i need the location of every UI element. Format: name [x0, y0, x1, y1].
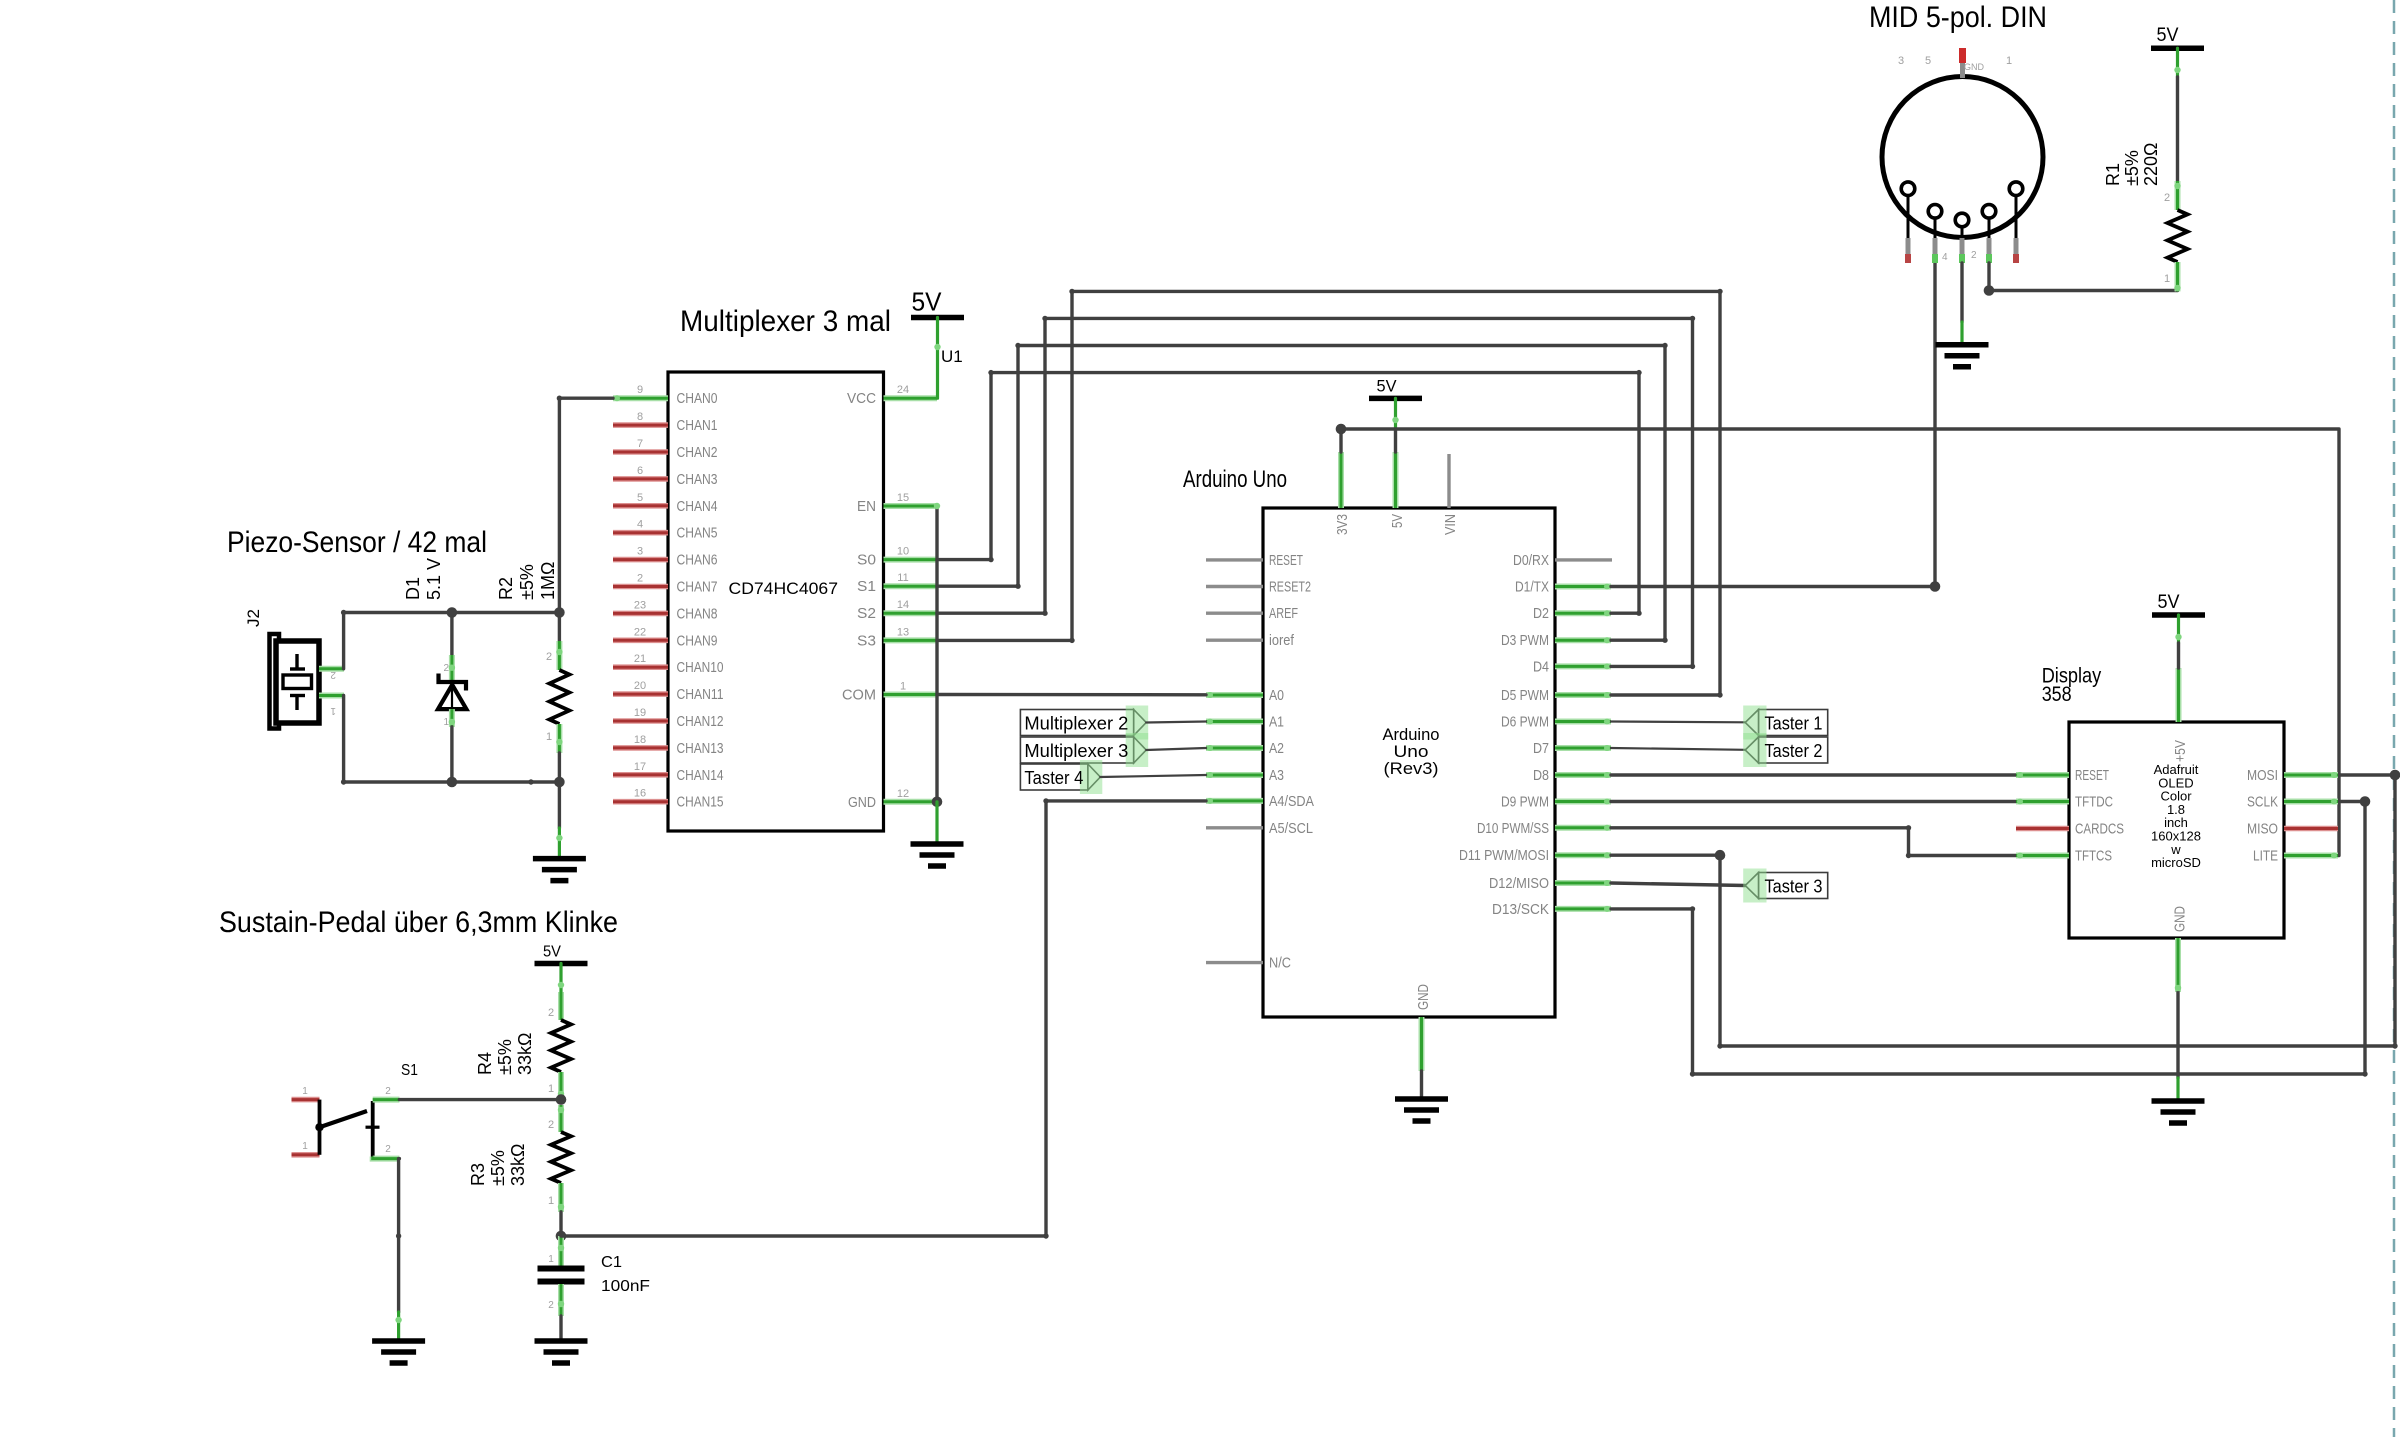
Display pin +5V [2176, 668, 2182, 722]
svg-text:EN: EN [857, 499, 876, 515]
svg-text:±5%: ±5% [2122, 150, 2142, 186]
wire D8 - Display RESET [1611, 773, 2016, 776]
Arduino pin D3 PWM [1555, 637, 1611, 643]
svg-text:21: 21 [634, 653, 646, 665]
resistor R3 33k [558, 1105, 564, 1132]
svg-text:1: 1 [548, 1254, 554, 1265]
svg-text:8: 8 [637, 411, 643, 423]
svg-text:4: 4 [1942, 252, 1948, 263]
ground symbol (DIN) [1936, 342, 1989, 348]
svg-text:C1: C1 [601, 1254, 622, 1271]
svg-text:22: 22 [634, 626, 646, 638]
svg-text:GND: GND [848, 795, 876, 811]
wire S1 bottom to ground [397, 1159, 401, 1312]
svg-text:358: 358 [2042, 683, 2072, 706]
svg-text:D5 PWM: D5 PWM [1501, 688, 1549, 704]
Arduino pin D5 PWM [1555, 692, 1611, 698]
svg-text:D12/MISO: D12/MISO [1489, 876, 1549, 892]
wire 5V to U1 VCC [936, 318, 939, 399]
svg-text:COM: COM [842, 688, 876, 704]
S1 pin top [373, 1097, 400, 1103]
svg-text:9: 9 [637, 384, 643, 396]
U1 pin GND (pin 12) [884, 799, 938, 805]
U1 pin CHAN2 (pin 7) [613, 449, 668, 455]
svg-text:S1: S1 [857, 579, 876, 595]
svg-text:microSD: microSD [2151, 855, 2201, 870]
svg-text:Arduino Uno: Arduino Uno [1183, 466, 1287, 493]
5V supply symbol (R1) [2151, 45, 2204, 51]
net flag Taster 2 [1759, 737, 1828, 763]
junction piezo bottom at D1 [447, 777, 458, 788]
svg-text:11: 11 [897, 572, 908, 584]
DIN pin 4 [1982, 205, 1996, 219]
U1 pin CHAN1 (pin 8) [613, 422, 668, 428]
svg-text:23: 23 [634, 599, 646, 611]
svg-text:Multiplexer 3: Multiplexer 3 [1024, 740, 1128, 761]
svg-text:D11 PWM/MOSI: D11 PWM/MOSI [1459, 848, 1549, 864]
wire Arduino GND to ground [1420, 1071, 1423, 1099]
svg-text:CHAN0: CHAN0 [677, 391, 718, 407]
svg-text:Taster 4: Taster 4 [1024, 767, 1083, 788]
svg-text:CHAN12: CHAN12 [677, 714, 724, 730]
Display pin LITE [2284, 853, 2338, 859]
wire DIN pin4 - R1 [1989, 263, 2178, 291]
D1 label [403, 558, 444, 600]
svg-text:CHAN14: CHAN14 [677, 768, 724, 784]
wire D1/TX - DIN pin5 [1611, 585, 1935, 588]
J2 pin 1 [319, 693, 344, 699]
R4 label [475, 1033, 535, 1075]
U1 pin CHAN11 (pin 20) [613, 691, 668, 697]
Arduino pin VIN [1447, 454, 1450, 508]
R2 label [496, 562, 558, 600]
net flag Multiplexer 3 [1020, 737, 1133, 763]
svg-text:Multiplexer 2: Multiplexer 2 [1024, 713, 1128, 734]
svg-text:5V: 5V [2157, 25, 2179, 46]
5V supply symbol (R4) [535, 961, 588, 967]
svg-text:33kΩ: 33kΩ [508, 1144, 528, 1186]
wire S1 top - R4/R3 junction [399, 1098, 561, 1101]
svg-text:D0/RX: D0/RX [1513, 553, 1549, 569]
svg-text:SCLK: SCLK [2247, 795, 2278, 811]
svg-text:AREF: AREF [1269, 606, 1298, 622]
ground symbol (S1) [372, 1338, 425, 1344]
svg-text:Piezo-Sensor / 42 mal: Piezo-Sensor / 42 mal [227, 526, 487, 559]
svg-text:Taster 2: Taster 2 [1765, 740, 1823, 761]
Display pin RESET [2016, 772, 2069, 778]
Arduino pin D8 [1555, 772, 1611, 778]
svg-text:S0: S0 [857, 553, 876, 569]
svg-text:Multiplexer 3 mal: Multiplexer 3 mal [680, 305, 891, 338]
wire U1 EN to GND rail [935, 506, 938, 802]
svg-text:2: 2 [2164, 192, 2170, 204]
Arduino pin GND [1419, 1017, 1425, 1071]
junction R4/R3/S1 [556, 1094, 567, 1105]
svg-text:10: 10 [897, 546, 909, 558]
S1 pin bottom [373, 1157, 400, 1159]
wire D11 - Display MOSI [1611, 775, 2395, 1046]
svg-text:24: 24 [897, 384, 909, 396]
svg-text:D3 PWM: D3 PWM [1501, 633, 1549, 649]
svg-text:ioref: ioref [1269, 633, 1295, 649]
wire top rail (piezo net) [344, 611, 560, 614]
junction R3/C1/A4 [556, 1231, 567, 1242]
svg-text:5V: 5V [1390, 514, 1406, 528]
wire DIN pin2 to ground [1960, 263, 1963, 322]
svg-text:5V: 5V [543, 944, 561, 961]
Display pin MOSI [2284, 772, 2338, 778]
connector J2 piezo [244, 609, 263, 627]
Arduino Uno body [1263, 508, 1555, 1017]
svg-text:3V3: 3V3 [1335, 514, 1351, 535]
Arduino pin D10 PWM/SS [1555, 825, 1611, 831]
svg-text:1: 1 [443, 717, 449, 728]
svg-text:Uno: Uno [1394, 743, 1429, 761]
net flag Taster 1 [1759, 710, 1828, 736]
svg-text:LITE: LITE [2253, 849, 2278, 865]
U1 pin CHAN5 (pin 4) [613, 530, 668, 536]
svg-text:CHAN3: CHAN3 [677, 472, 718, 488]
svg-text:5V: 5V [1377, 376, 1398, 395]
svg-text:5: 5 [1925, 55, 1931, 67]
svg-text:Taster 1: Taster 1 [1765, 713, 1823, 734]
svg-text:2: 2 [548, 1007, 554, 1019]
svg-text:CD74HC4067: CD74HC4067 [729, 579, 839, 598]
Arduino pin 5V [1393, 452, 1399, 508]
svg-text:18: 18 [634, 734, 646, 746]
wire U1 COM - Arduino A0 [937, 693, 1206, 697]
wire D9 - Display TFTDC [1611, 800, 2016, 803]
svg-text:2: 2 [1971, 250, 1977, 261]
wire J2 pin2 up to top rail [342, 613, 345, 669]
wire net S1 - D3 [937, 346, 1665, 641]
wire net S2 - D4 [937, 318, 1693, 666]
svg-text:15: 15 [897, 492, 909, 504]
zener diode D1 5.1V [450, 613, 453, 656]
svg-text:33kΩ: 33kΩ [515, 1033, 535, 1075]
Display pin TFTCS [2016, 853, 2069, 859]
U1 pin CHAN13 (pin 18) [613, 745, 668, 751]
Arduino pin D0/RX [1555, 558, 1612, 561]
wire flag Multiplexer 3 - A2 [1146, 748, 1206, 750]
Display pin TFTDC [2016, 799, 2069, 805]
svg-text:1: 1 [2164, 273, 2170, 285]
Display pin SCLK [2284, 799, 2338, 805]
U1 pin S0 (pin 10) [884, 557, 938, 563]
svg-text:1: 1 [302, 1086, 308, 1097]
resistor R1 220 Ohm [2175, 181, 2181, 210]
Arduino pin D12/MISO [1555, 880, 1611, 886]
svg-text:MID 5-pol. DIN: MID 5-pol. DIN [1869, 1, 2047, 34]
capacitor C1 100nF [558, 1236, 564, 1266]
DIN pin 5 [1928, 205, 1942, 219]
DIN pin 3 [1901, 182, 1915, 196]
Arduino pin D11 PWM/MOSI [1555, 852, 1611, 858]
svg-text:A5/SCL: A5/SCL [1269, 821, 1313, 837]
junction piezo top at D1 [447, 607, 458, 618]
svg-text:S3: S3 [857, 633, 876, 649]
DIN top GND pin [1960, 62, 1965, 78]
svg-text:220Ω: 220Ω [2141, 143, 2161, 187]
U1 pin CHAN14 (pin 17) [613, 772, 668, 778]
svg-text:CHAN4: CHAN4 [677, 499, 718, 515]
svg-text:S1: S1 [401, 1062, 418, 1079]
5V supply symbol (mux) [911, 315, 964, 321]
svg-text:D2: D2 [1533, 606, 1549, 622]
svg-text:2: 2 [330, 669, 336, 680]
U1 pin CHAN6 (pin 3) [613, 557, 668, 563]
svg-text:1: 1 [548, 1195, 554, 1207]
svg-text:VCC: VCC [847, 391, 876, 407]
svg-text:N/C: N/C [1269, 956, 1291, 972]
Arduino pin A2 [1206, 745, 1263, 751]
DIN connector J1 body [1882, 77, 2043, 238]
svg-text:2: 2 [548, 1119, 554, 1131]
svg-text:20: 20 [634, 680, 646, 692]
wire 3V3 - Display LITE [1341, 429, 2339, 856]
svg-text:3: 3 [1898, 55, 1904, 67]
Arduino pin A5/SCL [1206, 826, 1263, 829]
svg-text:GND: GND [1416, 984, 1432, 1010]
svg-text:±5%: ±5% [488, 1150, 508, 1186]
svg-text:Arduino: Arduino [1383, 726, 1440, 744]
svg-text:19: 19 [634, 707, 646, 719]
S1 lever [320, 1111, 368, 1127]
wire R2 bottom to ground [558, 782, 561, 828]
net flag Multiplexer 2 [1020, 710, 1133, 736]
svg-text:5V: 5V [912, 287, 943, 317]
wire bottom rail (gnd net) [344, 780, 560, 783]
svg-text:D13/SCK: D13/SCK [1492, 902, 1549, 918]
svg-text:MOSI: MOSI [2247, 768, 2278, 784]
svg-text:J2: J2 [244, 609, 263, 627]
DIN pin 1 [2009, 182, 2023, 196]
svg-text:1: 1 [330, 705, 336, 716]
U1 pin CHAN4 (pin 5) [613, 503, 668, 509]
wire R3/C1 junction - Arduino A4/SDA [561, 801, 1206, 1236]
resistor R2 1M Ohm [558, 613, 561, 642]
svg-text:U1: U1 [941, 347, 963, 366]
Arduino pin RESET [1206, 558, 1263, 561]
wire D12 - flag Taster 3 [1611, 883, 1745, 886]
svg-text:1: 1 [546, 731, 552, 743]
svg-text:RESET2: RESET2 [1269, 580, 1311, 596]
svg-text:4: 4 [637, 519, 643, 531]
Display pin GND [2175, 938, 2181, 992]
DIN pin 2 [1955, 213, 1969, 227]
svg-text:CHAN5: CHAN5 [677, 526, 718, 542]
wire net S3 - D5 [937, 291, 1720, 695]
svg-text:A4/SDA: A4/SDA [1269, 794, 1314, 810]
ground symbol (Display) [2152, 1098, 2205, 1104]
svg-text:CHAN8: CHAN8 [677, 606, 718, 622]
svg-text:D6 PWM: D6 PWM [1501, 715, 1549, 731]
5V supply symbol (Arduino) [1369, 396, 1422, 402]
wire net S0 - D2 [937, 373, 1639, 614]
Arduino pin A4/SDA [1206, 798, 1263, 804]
svg-text:1MΩ: 1MΩ [538, 562, 558, 600]
svg-text:D1/TX: D1/TX [1515, 580, 1549, 596]
svg-text:GND: GND [2173, 906, 2189, 932]
R1 label [2103, 143, 2161, 187]
svg-text:R2: R2 [496, 577, 516, 600]
net flag Taster 3 [1759, 873, 1828, 899]
net flag Taster 4 [1020, 764, 1088, 790]
wire D6 - flag Taster 1 [1611, 720, 1745, 723]
svg-text:5: 5 [637, 492, 643, 504]
Arduino pin D1/TX [1555, 584, 1611, 590]
svg-text:VIN: VIN [1443, 514, 1459, 535]
svg-text:CARDCS: CARDCS [2075, 822, 2124, 838]
svg-text:3: 3 [637, 546, 643, 558]
svg-text:CHAN7: CHAN7 [677, 580, 718, 596]
U1 pin S1 (pin 11) [884, 583, 938, 589]
svg-text:16: 16 [634, 788, 646, 800]
svg-text:6: 6 [637, 465, 643, 477]
junction U1 GND [932, 797, 943, 808]
svg-text:A1: A1 [1269, 715, 1284, 731]
R3 label [468, 1144, 528, 1186]
junction piezo top at R2 [554, 607, 565, 618]
svg-text:D8: D8 [1533, 768, 1549, 784]
svg-text:D10 PWM/SS: D10 PWM/SS [1477, 821, 1549, 837]
schematic sheet border [2393, 0, 2396, 1437]
svg-text:100nF: 100nF [601, 1278, 650, 1295]
svg-text:CHAN10: CHAN10 [677, 660, 724, 676]
svg-text:(Rev3): (Rev3) [1384, 760, 1439, 778]
U1 pin CHAN9 (pin 22) [613, 637, 668, 643]
junction piezo bottom at R2 [554, 777, 565, 788]
Arduino pin AREF [1206, 612, 1263, 615]
svg-text:CHAN11: CHAN11 [677, 687, 724, 703]
Arduino pin D13/SCK [1555, 906, 1611, 912]
svg-text:R3: R3 [468, 1163, 488, 1186]
svg-text:2: 2 [637, 573, 643, 585]
U1 pin CHAN12 (pin 19) [613, 718, 668, 724]
wire DIN pin5 down [1933, 263, 1936, 587]
Display pin CARDCS [2016, 826, 2069, 832]
svg-text:12: 12 [897, 788, 909, 800]
U1 pin CHAN7 (pin 2) [613, 584, 668, 590]
svg-text:A3: A3 [1269, 768, 1284, 784]
svg-text:D9 PWM: D9 PWM [1501, 795, 1549, 811]
Arduino pin A3 [1206, 772, 1263, 778]
U1 pin CHAN0 (pin 9) [613, 395, 668, 401]
svg-text:CHAN9: CHAN9 [677, 633, 718, 649]
svg-text:17: 17 [634, 761, 646, 773]
ground symbol (piezo) [533, 856, 586, 862]
svg-text:2: 2 [385, 1144, 391, 1155]
svg-text:1: 1 [548, 1083, 554, 1095]
svg-text:CHAN2: CHAN2 [677, 445, 718, 461]
U1 pin CHAN15 (pin 16) [613, 799, 668, 805]
Display module body [2069, 722, 2284, 938]
5V supply symbol (Display) [2152, 612, 2205, 618]
U1 pin S3 (pin 13) [884, 637, 938, 643]
U1 pin EN (pin 15) [884, 503, 938, 509]
wire Display GND to ground [2176, 992, 2179, 1078]
svg-text:2: 2 [546, 651, 552, 663]
svg-text:CHAN15: CHAN15 [677, 795, 724, 811]
svg-text:2: 2 [548, 1300, 554, 1311]
Arduino pin RESET2 [1206, 585, 1263, 588]
Arduino pin D2 [1555, 610, 1611, 616]
svg-text:CHAN1: CHAN1 [677, 418, 718, 434]
svg-text:1: 1 [302, 1141, 308, 1152]
U1 pin CHAN10 (pin 21) [613, 664, 668, 670]
svg-text:S2: S2 [857, 606, 876, 622]
svg-text:CHAN6: CHAN6 [677, 553, 718, 569]
svg-text:5V: 5V [2158, 592, 2180, 613]
svg-text:14: 14 [897, 599, 909, 611]
wire flag Multiplexer 2 - A1 [1146, 722, 1206, 723]
Display pin MISO [2284, 826, 2338, 832]
ground symbol (mux) [911, 841, 964, 847]
Arduino pin 3V3 [1338, 452, 1344, 508]
svg-text:+5V: +5V [2173, 740, 2189, 762]
IC U1 CD74HC4067 body [668, 372, 884, 831]
svg-text:5.1 V: 5.1 V [424, 558, 444, 600]
svg-text:A2: A2 [1269, 741, 1284, 757]
wire D7 - flag Taster 2 [1611, 748, 1745, 750]
U1 pin CHAN3 (pin 6) [613, 476, 668, 482]
ground symbol (C1) [535, 1338, 588, 1344]
wire 5V - R1 [2176, 48, 2179, 77]
svg-text:TFTDC: TFTDC [2075, 795, 2113, 811]
Arduino pin D6 PWM [1555, 719, 1611, 725]
resistor R4 33k [559, 964, 562, 993]
wire J2 pin1 down to bottom rail [342, 696, 345, 783]
svg-text:R4: R4 [475, 1052, 495, 1075]
Arduino pin A0 [1206, 692, 1263, 698]
svg-text:CHAN13: CHAN13 [677, 741, 724, 757]
svg-text:D1: D1 [403, 577, 423, 600]
svg-text:2: 2 [443, 663, 449, 674]
wire D10 - Display TFTCS [1611, 828, 2016, 856]
Arduino pin N/C [1206, 961, 1263, 964]
svg-text:R1: R1 [2103, 163, 2123, 186]
U1 pin VCC (pin 24) [884, 395, 938, 401]
Arduino pin ioref [1206, 639, 1263, 642]
svg-text:GND: GND [1964, 62, 1985, 72]
svg-text:D7: D7 [1533, 741, 1549, 757]
svg-text:RESET: RESET [1269, 553, 1303, 569]
wire D13 - Display SCLK [1611, 802, 2365, 1075]
U1 pin CHAN8 (pin 23) [613, 611, 668, 617]
svg-text:RESET: RESET [2075, 768, 2109, 784]
Arduino pin A1 [1206, 719, 1263, 725]
U1 pin S2 (pin 14) [884, 610, 938, 616]
ground symbol (Arduino) [1395, 1096, 1448, 1102]
wire 5V - Display +5V [2177, 615, 2180, 643]
svg-text:TFTCS: TFTCS [2075, 849, 2112, 865]
Arduino pin D4 [1555, 663, 1611, 669]
svg-text:Sustain-Pedal über 6,3mm Klink: Sustain-Pedal über 6,3mm Klinke [219, 906, 618, 939]
svg-text:1: 1 [900, 681, 906, 693]
Arduino pin D9 PWM [1555, 799, 1611, 805]
svg-text:±5%: ±5% [495, 1039, 515, 1075]
wire 5V supply to Arduino 5V pin [1394, 398, 1397, 430]
svg-text:1: 1 [2006, 55, 2012, 67]
svg-text:MISO: MISO [2247, 822, 2278, 838]
svg-text:A0: A0 [1269, 688, 1284, 704]
Arduino pin D7 [1555, 745, 1611, 751]
svg-text:Taster 3: Taster 3 [1765, 876, 1823, 897]
J2 pin 2 [319, 666, 344, 672]
wire U1 GND to ground [935, 802, 938, 844]
wire flag Taster 4 - A3 [1100, 775, 1206, 777]
svg-text:2: 2 [385, 1086, 391, 1097]
